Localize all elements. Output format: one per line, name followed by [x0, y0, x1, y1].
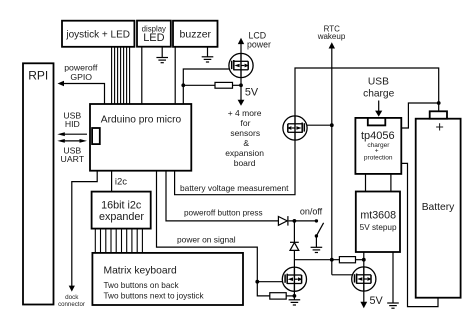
label 16bit i2c expander [99, 199, 144, 223]
svg-text:+: + [435, 120, 443, 136]
wire tp4056 to mt3608 right [390, 174, 392, 192]
label Matrix keyboard [104, 265, 205, 300]
svg-text:HID: HID [65, 119, 80, 129]
svg-text:protection: protection [364, 155, 393, 162]
label dock connector [58, 294, 85, 308]
svg-text:expansion: expansion [225, 148, 264, 158]
wire mt3608 gnd [392, 252, 394, 303]
svg-text:16bit i2c: 16bit i2c [101, 199, 142, 211]
svg-text:Battery: Battery [422, 202, 455, 213]
wire i2c arduino to expander [111, 171, 113, 192]
svg-text:for: for [241, 118, 251, 128]
wire gate pulldown branch [257, 282, 270, 296]
resistor R1 [215, 82, 233, 88]
diode D1 [278, 216, 288, 226]
ground switch [311, 247, 323, 252]
wire mosfet Q1 gate to arduino pin [183, 69, 232, 104]
svg-text:mt3608: mt3608 [360, 209, 396, 221]
svg-text:USB: USB [368, 77, 389, 88]
wire poweroff GPIO from RPI to Arduino [58, 81, 105, 104]
wire tp4056 to mt3608 left [365, 174, 367, 192]
svg-text:Arduino pro micro: Arduino pro micro [101, 115, 182, 126]
box RPI [23, 63, 54, 304]
svg-text:&: & [243, 138, 249, 148]
wire tp4056 BAT+ to battery [401, 103, 438, 128]
connector USB on arduino [92, 128, 100, 144]
svg-text:wakeup: wakeup [317, 32, 346, 41]
junction dot [437, 101, 441, 105]
wire R4 to mt3608 lead [356, 259, 364, 261]
svg-text:on/off: on/off [300, 206, 323, 216]
svg-text:Two buttons on back: Two buttons on back [104, 281, 180, 290]
wire expander to keyboard bundle [95, 229, 142, 253]
junction dot [330, 258, 334, 262]
svg-text:battery voltage measurement: battery voltage measurement [180, 183, 289, 193]
label USB HID [63, 111, 81, 130]
junction dot [181, 83, 185, 87]
wire D2 to Q3 drain [293, 250, 295, 267]
junction dot [362, 258, 366, 262]
box Arduino pro micro [90, 104, 191, 171]
label USB charge [363, 77, 394, 100]
ground display LED [156, 48, 168, 63]
wire buzzer to arduino [174, 47, 176, 104]
svg-text:sensors: sensors [230, 128, 260, 138]
label LCD power [247, 30, 271, 49]
wire Q4 source 5V arrow [360, 291, 367, 308]
box tp4056 [355, 118, 401, 174]
svg-text:power on signal: power on signal [177, 234, 236, 244]
wire power on signal row [157, 171, 286, 282]
wire dock connector arrow [69, 171, 98, 292]
svg-text:5V: 5V [370, 295, 384, 307]
mosfet Q1 LCD power switch [229, 53, 253, 77]
box Battery [416, 111, 461, 297]
diode D2 [290, 242, 299, 250]
wire Q3 source to ground [293, 291, 295, 299]
label + 4 more for sensors & expansion board [225, 108, 264, 168]
svg-text:expander: expander [99, 211, 144, 223]
svg-text:LED: LED [143, 32, 164, 44]
label display LED [142, 24, 166, 44]
label poweroff GPIO [64, 63, 98, 82]
label USB UART [61, 146, 85, 165]
box Matrix keyboard [92, 253, 243, 305]
wire 5V arrow down below Q1 [238, 78, 245, 106]
svg-text:i2c: i2c [115, 177, 127, 188]
wire poweroff button press row [166, 171, 278, 221]
svg-text:+ 4 more: + 4 more [228, 108, 262, 118]
junction dot [239, 83, 243, 87]
junction dot [293, 219, 297, 223]
wire USB HID double arrow [57, 132, 87, 136]
label RTC wakeup [317, 24, 346, 40]
svg-text:RPI: RPI [28, 68, 48, 82]
svg-text:buzzer: buzzer [180, 29, 212, 41]
svg-text:joystick + LED: joystick + LED [65, 30, 130, 41]
box mt3608 [356, 192, 400, 253]
svg-text:tp4056: tp4056 [361, 130, 395, 142]
junction dot [255, 280, 259, 284]
svg-text:5V: 5V [245, 87, 259, 99]
mosfet Q2 battery measurement switch [283, 116, 307, 140]
wire LCD power arrow up [238, 38, 244, 54]
svg-text:5V stepup: 5V stepup [360, 223, 397, 232]
mosfet Q3 power on switch [282, 267, 306, 291]
resistor R4 [339, 257, 355, 263]
wire gate row to RTC line [294, 259, 339, 261]
wire tp4056 BAT- to battery bottom [401, 163, 438, 306]
svg-text:board: board [234, 158, 256, 168]
resistor R3 [270, 293, 286, 299]
wire mt3608 out to Q4 drain [363, 252, 365, 267]
switch SW1 on/off [315, 219, 324, 247]
wire USB charge arrow [375, 101, 382, 117]
svg-text:poweroff button press: poweroff button press [184, 208, 263, 217]
wire battery voltage measurement from arduino to Q2 [175, 116, 295, 195]
svg-text:Two buttons next to joystick: Two buttons next to joystick [104, 292, 205, 301]
wire Q2 gate to RTC line [304, 124, 331, 126]
wire joystick bundle to arduino [112, 47, 130, 104]
ground Q3 [289, 300, 301, 305]
junction dot [330, 123, 334, 127]
junction dot [293, 294, 297, 298]
label tp4056 charger + protection [361, 130, 395, 162]
wire top rail to battery [295, 68, 439, 116]
box joystick + LED [62, 21, 134, 47]
svg-text:UART: UART [61, 154, 85, 164]
wire USB UART double arrow [57, 139, 87, 143]
wire diode to switch [289, 220, 317, 222]
ground buzzer [202, 47, 214, 62]
wire junction to diode D2 [293, 221, 295, 242]
svg-text:power: power [247, 39, 271, 49]
svg-text:Matrix keyboard: Matrix keyboard [104, 265, 178, 276]
ground mt3608 [387, 303, 399, 308]
mosfet Q4 5V output switch [352, 267, 376, 291]
wire resistor R1 row [183, 84, 215, 86]
wire display LED to arduino [141, 48, 143, 105]
svg-text:charger: charger [367, 142, 390, 149]
box display LED [137, 21, 171, 47]
label mt3608 5V stepup [360, 209, 397, 232]
wire RTC line vertical [329, 42, 355, 275]
svg-text:charge: charge [363, 89, 394, 100]
svg-text:connector: connector [58, 301, 85, 308]
wire R3 to Q3 source [286, 295, 294, 297]
svg-text:GPIO: GPIO [70, 72, 92, 82]
box buzzer [173, 21, 218, 47]
box 16bit i2c expander [92, 192, 151, 229]
